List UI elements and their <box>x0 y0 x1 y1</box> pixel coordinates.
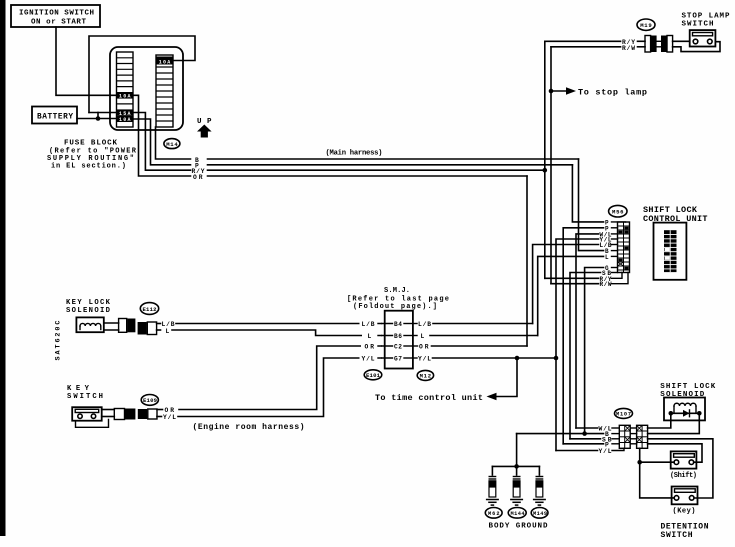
pin Y/L wire riser <box>556 239 599 451</box>
wire L/B to SMJ <box>157 323 381 325</box>
svg-text:OR: OR <box>165 407 175 414</box>
battery box <box>32 107 77 124</box>
label OR left of SMJ <box>361 341 381 351</box>
label Y/L left of SMJ <box>360 353 382 363</box>
wire Y/L detention <box>556 448 624 455</box>
diode D1 <box>683 410 690 417</box>
connector E109 <box>141 395 158 406</box>
ground leg M144 <box>513 466 520 497</box>
detention switch (Key) contact <box>672 487 698 516</box>
svg-text:M149: M149 <box>533 511 547 517</box>
node R/Y junction <box>543 168 548 173</box>
node detention common junction <box>637 460 642 465</box>
svg-text:(Key): (Key) <box>673 507 696 515</box>
svg-text:FUSE BLOCK: FUSE BLOCK <box>64 140 117 148</box>
svg-text:L/B: L/B <box>362 321 375 328</box>
connector E101 <box>364 370 382 380</box>
detention connector strip 1 <box>619 425 630 448</box>
wire OR main harness <box>208 175 528 177</box>
wire P from fuse block <box>133 119 191 165</box>
wire B detention to ground <box>517 431 620 438</box>
svg-text:R/W: R/W <box>600 281 612 288</box>
svg-text:Y/L: Y/L <box>163 414 176 421</box>
wire L right of SMJ <box>430 335 538 337</box>
wire SB detention <box>570 436 619 443</box>
pin L/B wire riser to SMJ <box>533 245 599 324</box>
pin R/Y wire <box>545 277 599 279</box>
key lock solenoid L1 <box>76 317 103 332</box>
fuse column left <box>117 52 134 127</box>
svg-text:SWITCH: SWITCH <box>682 21 714 29</box>
wire R/W under switch <box>673 42 720 52</box>
fuse column right <box>156 55 173 127</box>
node Y/L junction <box>554 356 559 361</box>
connector M14 <box>164 139 180 149</box>
svg-text:in EL section.): in EL section.) <box>51 163 126 171</box>
svg-text:B6: B6 <box>394 333 402 340</box>
svg-text:S.M.J.: S.M.J. <box>384 287 410 295</box>
wire ignition switch to fuse 10A <box>56 27 117 95</box>
wire R/Y riser to main harness <box>544 41 546 170</box>
fuse 10A (ignition) <box>117 92 134 100</box>
detention connector strip 2 <box>637 425 648 448</box>
wire to stop lamp arrow <box>551 87 576 95</box>
wire B from fuse block <box>156 127 191 159</box>
svg-text:L: L <box>605 254 609 261</box>
fuse 10A (stop lamp) <box>156 57 173 66</box>
label L left of SMJ <box>362 331 381 341</box>
node detention B junction <box>582 431 587 436</box>
svg-text:ON or START: ON or START <box>31 19 86 27</box>
UP arrow <box>197 118 212 138</box>
pin P2 wire riser to detention switch <box>563 228 603 444</box>
svg-text:To time control unit: To time control unit <box>375 393 483 403</box>
label L/B left of SMJ <box>360 319 382 329</box>
ground leg M62 <box>489 466 496 497</box>
svg-text:SWITCH: SWITCH <box>661 531 693 540</box>
node solenoid right <box>697 411 702 416</box>
wire strip2 to solenoid right <box>648 413 700 433</box>
connector M62 <box>485 508 502 519</box>
svg-text:BATTERY: BATTERY <box>37 113 73 121</box>
SMJ pin B4 row <box>378 321 417 328</box>
connector pair at stop lamp switch <box>645 36 673 53</box>
svg-text:(Foldout page).]: (Foldout page).] <box>353 303 437 311</box>
detention switch label <box>661 523 709 540</box>
wire B main harness <box>208 158 579 160</box>
wire strip2 to shift contact right <box>648 444 702 462</box>
connector pair at key lock solenoid <box>119 319 157 335</box>
svg-text:STOP LAMP: STOP LAMP <box>682 13 730 21</box>
pin L wire riser to SMJ <box>538 256 604 335</box>
wire key switch to connector OR <box>102 409 115 411</box>
svg-text:M107: M107 <box>616 412 631 418</box>
svg-text:KEY LOCK: KEY LOCK <box>66 299 111 307</box>
pin G wire riser to detention ground <box>585 268 604 434</box>
connector pair at key switch <box>114 409 157 420</box>
wire key switch to connector Y/L <box>102 416 115 418</box>
pin SB wire riser to detention switch <box>570 273 601 439</box>
wire body ground branch <box>492 465 539 467</box>
wire common to shift contact left <box>640 461 674 463</box>
key switch SW1 <box>72 407 108 427</box>
svg-text:10A: 10A <box>159 59 171 65</box>
wire R/Y from fuse block <box>133 113 191 171</box>
control unit internal connector <box>664 230 677 272</box>
SMJ pin C2 row <box>378 344 418 351</box>
wire strip2 to key contact right <box>648 439 713 498</box>
connector M12 <box>417 370 433 380</box>
ground leg M149 <box>536 466 543 497</box>
node to stop lamp junction <box>549 89 554 94</box>
svg-text:OR: OR <box>193 174 203 181</box>
FUSE BLOCK caption <box>47 140 137 171</box>
key lock solenoid label <box>66 299 111 315</box>
node time control junction <box>515 356 520 361</box>
ground symbol M62 <box>486 500 499 506</box>
svg-text:M12: M12 <box>420 373 432 380</box>
svg-text:L/B: L/B <box>418 321 431 328</box>
wire R/W riser <box>550 47 552 284</box>
svg-text:10A: 10A <box>119 94 131 100</box>
svg-text:B4: B4 <box>394 321 402 328</box>
node body ground junction <box>514 464 519 469</box>
pin B wire from main harness B <box>579 159 604 251</box>
stop lamp switch <box>690 30 716 46</box>
wire body ground feed <box>516 434 518 467</box>
wire Y/L right of SMJ <box>433 357 557 359</box>
wire OR riser main harness to SMJ <box>526 176 528 346</box>
svg-text:G7: G7 <box>394 356 402 363</box>
wire OR right of SMJ <box>432 345 528 347</box>
svg-text:M19: M19 <box>640 22 652 29</box>
svg-text:SAT620C: SAT620C <box>55 321 63 361</box>
svg-text:Y/L: Y/L <box>362 356 375 363</box>
svg-text:KEY: KEY <box>67 385 90 393</box>
svg-text:E112: E112 <box>143 306 158 313</box>
fuse 10A (battery) <box>117 116 134 124</box>
border frame left bar <box>0 0 6 536</box>
wire strip2 common leg <box>640 448 675 498</box>
svg-text:M62: M62 <box>488 511 500 517</box>
wire L/B right of SMJ <box>433 323 533 325</box>
svg-text:L: L <box>421 333 425 340</box>
svg-text:M56: M56 <box>612 209 624 216</box>
svg-text:M14: M14 <box>166 141 178 148</box>
control unit connector strip <box>618 222 630 273</box>
S.M.J. caption <box>347 287 449 311</box>
svg-text:M144: M144 <box>511 511 526 517</box>
connector E112 <box>140 303 158 315</box>
wire Y/L to SMJ with jog <box>157 358 381 417</box>
wire R/Y into switch <box>673 40 690 42</box>
connector M107 <box>615 408 633 418</box>
svg-text:Y/L: Y/L <box>418 356 431 363</box>
svg-text:(Shift): (Shift) <box>670 472 697 480</box>
svg-text:OR: OR <box>419 344 429 351</box>
connector M144 <box>508 508 526 519</box>
svg-text:IGNITION SWITCH: IGNITION SWITCH <box>19 10 94 18</box>
svg-text:OR: OR <box>365 344 375 351</box>
wire P main harness <box>208 164 573 166</box>
wire R/Y main harness <box>208 169 545 171</box>
key switch label <box>67 385 103 401</box>
pin W/L wire riser to detention switch <box>576 234 599 428</box>
wire battery to 15A fuse <box>97 113 99 119</box>
svg-text:(Main harness): (Main harness) <box>326 150 383 158</box>
connector M19 <box>637 19 655 30</box>
shift lock control unit U1 box <box>654 223 687 280</box>
shift lock solenoid label <box>660 383 715 399</box>
svg-text:C2: C2 <box>394 344 402 351</box>
svg-text:E109: E109 <box>143 397 158 404</box>
svg-text:10A: 10A <box>119 117 131 123</box>
pin R/W wire <box>551 283 599 285</box>
wires between detention strips <box>630 428 636 444</box>
svg-text:SHIFT LOCK: SHIFT LOCK <box>660 383 715 391</box>
shift lock solenoid L2 <box>664 398 705 421</box>
S.M.J. box <box>385 311 413 369</box>
pin P1 wire from main harness P <box>572 165 603 222</box>
wire P detention <box>563 441 619 448</box>
svg-text:L: L <box>166 328 170 335</box>
wire solenoid to connector L/B <box>104 322 119 324</box>
svg-text:R/W: R/W <box>622 45 635 52</box>
svg-text:(Engine room harness): (Engine room harness) <box>193 423 305 432</box>
svg-text:E101: E101 <box>366 372 381 379</box>
wire strip2 to solenoid left <box>648 413 671 428</box>
wire battery to stop lamp fuse <box>89 36 195 113</box>
detention switch (Shift) contact <box>670 451 697 480</box>
wire to time control unit <box>487 358 518 400</box>
wire OR from fuse block <box>133 95 191 176</box>
svg-text:To stop lamp: To stop lamp <box>578 88 647 98</box>
wire W/L detention <box>576 426 619 433</box>
ground symbol M149 <box>533 500 546 506</box>
wire R/Y stop lamp <box>545 40 621 42</box>
connector M149 <box>531 508 548 519</box>
wire solenoid to connector L <box>104 329 119 331</box>
fuse block outline <box>110 47 183 130</box>
svg-text:L: L <box>368 333 372 340</box>
shift lock control unit label <box>643 205 708 224</box>
stop lamp switch label <box>682 13 730 29</box>
ignition switch box <box>11 5 100 27</box>
wire battery feed <box>77 118 117 120</box>
node battery junction <box>96 116 101 121</box>
wire OR to SMJ with jog <box>157 346 381 410</box>
fuse 15A <box>117 109 134 117</box>
svg-text:Y/L: Y/L <box>599 448 612 455</box>
SMJ pin B6 row <box>378 333 417 340</box>
connector M56 <box>609 205 627 217</box>
SMJ pin G7 row <box>378 356 417 363</box>
svg-text:BODY GROUND: BODY GROUND <box>489 523 548 531</box>
wire R/W stop lamp <box>551 46 621 48</box>
svg-text:SOLENOID: SOLENOID <box>66 307 111 315</box>
wire L to SMJ with jog <box>157 330 381 336</box>
node solenoid left <box>669 411 674 416</box>
wire R/Y riser to control unit <box>544 170 546 278</box>
ground symbol M144 <box>510 500 523 506</box>
